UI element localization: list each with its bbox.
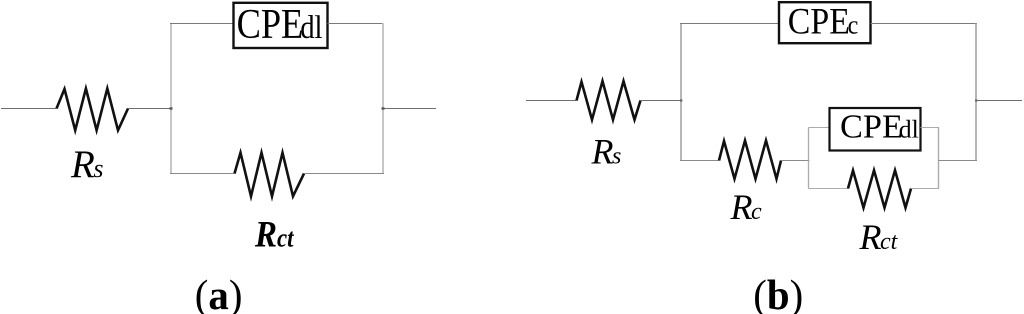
wire top branch right (b) xyxy=(871,23,978,25)
svg-text:CPEc: CPEc xyxy=(788,2,858,42)
svg-text:Rc: Rc xyxy=(730,187,763,227)
svg-text:CPEdl: CPEdl xyxy=(237,2,323,48)
resistor Rct (a) xyxy=(235,153,305,197)
node junction right (b) xyxy=(975,99,977,101)
wire top branch right (a) xyxy=(328,23,385,25)
resistor Rs (a) xyxy=(57,89,129,131)
capacitor box CPEdl (b) xyxy=(830,108,921,151)
node junction left (a) xyxy=(170,107,173,109)
resistor Rs (b) xyxy=(577,81,641,120)
node junction left (b) xyxy=(680,99,682,101)
wire right vertical of parallel loop (a) xyxy=(382,23,384,174)
svg-text:Rct: Rct xyxy=(254,214,295,255)
wire bottom branch right (a) xyxy=(304,173,384,175)
wire left vertical of parallel loop (a) xyxy=(170,23,172,174)
wire bottom branch left (a) xyxy=(170,173,235,175)
svg-text:(b): (b) xyxy=(753,272,803,314)
wire input (a) xyxy=(1,108,57,110)
capacitor box CPEdl (a) xyxy=(234,3,328,48)
svg-text:Rs: Rs xyxy=(591,132,622,172)
wire Rs to node (a) xyxy=(128,108,171,110)
wire nested top branch left (b) xyxy=(809,127,831,129)
wire input (b) xyxy=(526,100,577,102)
node junction right (a) xyxy=(382,107,385,109)
svg-text:Rct: Rct xyxy=(859,217,899,257)
wire nested bottom branch right (b) xyxy=(911,188,939,190)
wire nested top branch right (b) xyxy=(921,127,940,129)
svg-text:Rs: Rs xyxy=(70,143,103,186)
wire left vertical of nested loop (b) xyxy=(808,128,810,189)
wire output (b) xyxy=(976,100,1022,102)
resistor Rc (b) xyxy=(719,141,781,179)
wire left vertical of outer loop (b) xyxy=(680,23,682,161)
wire nested bottom branch left (b) xyxy=(809,188,849,190)
wire Rs to node (b) xyxy=(641,100,682,102)
wire bottom branch to Rc (b) xyxy=(680,160,719,162)
svg-text:(a): (a) xyxy=(195,272,243,314)
resistor Rct (b) xyxy=(848,170,911,207)
wire right vertical of outer loop (b) xyxy=(975,23,977,161)
wire nested loop to right vertical (b) xyxy=(939,160,978,162)
wire Rc to nested loop (b) xyxy=(781,160,810,162)
wire top branch left (b) xyxy=(680,23,780,25)
wire right vertical of nested loop (b) xyxy=(938,128,940,189)
wire output (a) xyxy=(383,108,436,110)
capacitor box CPEc (b) xyxy=(779,2,871,43)
wire top branch left (a) xyxy=(170,23,234,25)
